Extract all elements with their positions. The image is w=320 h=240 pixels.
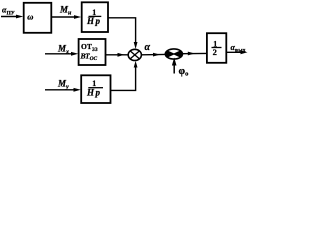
block OT_ZZ / VT_OS [79,39,106,65]
summing junction S2 (left/right sectors filled) [165,49,182,59]
block W1 omega [24,3,52,33]
block integrator U3 1/Hp (bottom) [81,75,110,103]
block integrator U2 1/Hp (top) [82,2,108,32]
wire input to omega block [1,16,19,18]
wire omega to integrator 1 [52,16,77,18]
svg-text:α: α [145,42,151,53]
wire M_X input to OT block [45,53,74,55]
wire M_Y input to integrator 2 [45,89,76,91]
svg-text:ω: ω [27,11,33,21]
wire phi0 input to S2 [173,63,175,74]
block gain 1/2 [207,33,226,63]
wire S1 to S2 [141,53,165,55]
summing junction S1 [128,49,141,60]
svg-text:Hp: Hp [86,16,102,26]
wire OT block to summing junction S1 [106,54,129,56]
svg-text:2: 2 [213,47,217,57]
wire output alpha_vyh [227,51,244,53]
wire S2 to gain block [183,52,207,54]
wire integrator2 to S1 (right then up) [111,65,136,90]
wire integrator1 to summing junction S1 (right then down) [108,18,136,45]
svg-text:Hp: Hp [86,87,102,97]
